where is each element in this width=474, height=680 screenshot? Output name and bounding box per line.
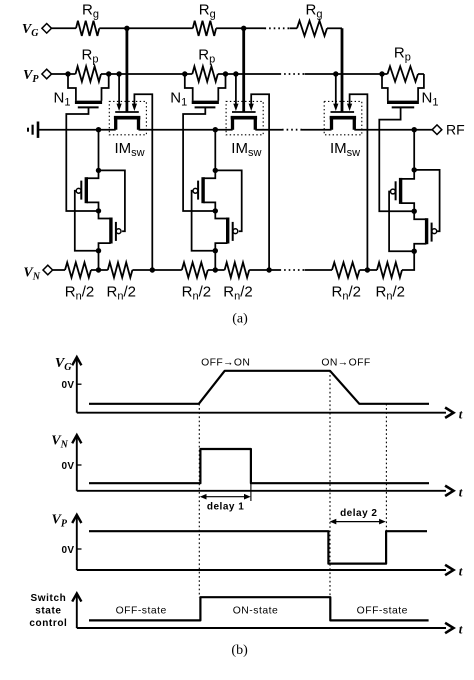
- node VN-hook2: [266, 267, 271, 272]
- gate bubble P1 (cell 1): [76, 188, 81, 193]
- guide dotted line 1: [198, 404, 200, 597]
- label OFF-ON: [201, 357, 250, 368]
- wire (bypass to P2 gate, cell 3): [414, 170, 439, 231]
- wire (VP gate feed arrow, cell 2): [233, 74, 238, 111]
- svg-text:delay 1: delay 1: [207, 502, 244, 513]
- wire (bypass to P2 gate, cell 1): [99, 170, 125, 231]
- node C (cell 2): [213, 208, 218, 213]
- wire: [269, 269, 279, 271]
- node VN-hook3: [365, 267, 370, 272]
- dashed box IMsw (cell 2): [226, 101, 263, 134]
- wire (rail): [139, 129, 233, 131]
- node B (cell 1): [96, 168, 101, 173]
- transistor P2 (cell 2): [215, 211, 232, 251]
- resistor Rn/2 (cell 2a): [182, 262, 211, 302]
- svg-text:t: t: [459, 484, 463, 499]
- gate bubble P1 (cell 3): [391, 189, 396, 194]
- wire (P1 gate to VN node, cell 1): [75, 191, 99, 251]
- label (a): [232, 312, 248, 327]
- wire: [132, 269, 152, 271]
- wire (Rg gate feed, cell 3): [341, 28, 344, 111]
- svg-text:OFF→ON: OFF→ON: [201, 357, 250, 368]
- wire: [52, 27, 77, 29]
- resistor Rn/2 (cell 2b): [215, 262, 252, 302]
- gate bubble P2 (cell 3): [432, 229, 437, 234]
- wire (rail): [255, 129, 282, 131]
- guide dotted line 3: [385, 404, 387, 531]
- wire (node D to VN row, cell 2): [214, 251, 216, 270]
- resistor Rg (cell 2): [193, 2, 216, 36]
- resistor Rn/2 (cell 3b): [367, 262, 405, 302]
- node Rg1-Rg2: [124, 26, 129, 31]
- svg-text:0V: 0V: [61, 461, 74, 472]
- transistor IMsw (cell 3): [330, 112, 360, 159]
- svg-text:Switch: Switch: [30, 593, 66, 604]
- svg-text:delay 2: delay 2: [340, 508, 377, 519]
- wire (node D to VN row, cell 1): [98, 251, 100, 270]
- transistor P1 (cell 2): [198, 170, 215, 211]
- wire: [305, 269, 333, 271]
- node VN-hook1: [150, 267, 155, 272]
- svg-text:state: state: [35, 606, 61, 617]
- label ON-OFF: [321, 357, 370, 368]
- wire (gate-to-VN hook, cell 3): [347, 94, 367, 270]
- transistor N1 (cell 3): [382, 74, 438, 108]
- resistor Rp (cell 1): [68, 47, 109, 82]
- transistor N1 (cell 2): [170, 74, 225, 108]
- node VN-cell1: [96, 267, 101, 272]
- svg-text:OFF-state: OFF-state: [357, 606, 408, 617]
- node D (cell 3): [412, 249, 417, 254]
- svg-text:t: t: [459, 622, 463, 637]
- node Rp1 right: [106, 71, 111, 76]
- svg-text:0V: 0V: [61, 380, 74, 391]
- wire (ellipsis continuation): [265, 27, 290, 29]
- wire (rail ellipsis): [282, 129, 302, 131]
- transistor P1 (cell 3): [396, 170, 415, 211]
- wire (VP gate feed arrow, cell 3): [333, 74, 338, 111]
- svg-text:t: t: [459, 406, 463, 421]
- node VP-Rp1: [65, 71, 70, 76]
- node rail-cell3: [412, 127, 417, 132]
- gate bubble P2 (cell 1): [116, 229, 121, 234]
- wire (rail to node B, cell 1): [98, 130, 100, 171]
- delay 2 annotation: [330, 508, 386, 524]
- svg-text:ON→OFF: ON→OFF: [321, 357, 370, 368]
- terminal V_N: [23, 265, 52, 282]
- transistor P1 (cell 1): [81, 170, 98, 211]
- wire: [52, 73, 69, 75]
- node rail-cell1: [96, 127, 101, 132]
- node D (cell 1): [96, 248, 101, 253]
- label OFF-state (right): [357, 606, 408, 617]
- resistor Rg (cell 3): [297, 2, 327, 36]
- wire (bypass to P2 gate, cell 2): [215, 170, 241, 231]
- waveform V_P: [89, 531, 427, 563]
- wire: [109, 73, 119, 75]
- label OFF-state (left): [116, 606, 167, 617]
- node C (cell 1): [96, 208, 101, 213]
- waveform V_N: [89, 449, 429, 483]
- wire: [99, 27, 127, 29]
- wire (rail): [39, 129, 116, 131]
- wire (rail): [302, 129, 332, 131]
- axis V_G (panel 1): [55, 356, 463, 421]
- wire: [290, 27, 298, 29]
- wire: [305, 73, 336, 75]
- wire: [327, 27, 342, 29]
- guide dotted line 2: [329, 371, 331, 597]
- wire (VP gate feed arrow, cell 1): [117, 74, 122, 111]
- dashed box IMsw (cell 3): [324, 101, 362, 134]
- wire: [236, 73, 280, 75]
- terminal V_P: [23, 68, 51, 85]
- axis V_N (panel 2): [51, 433, 463, 499]
- wire (node D to VN row, cell 3): [402, 251, 414, 270]
- wire (rail to node B, cell 2): [214, 130, 216, 171]
- node Rg2-Rg3: [241, 26, 246, 31]
- dashed box IMsw (cell 1): [109, 101, 146, 134]
- node VP-Rp2: [182, 71, 187, 76]
- wire (N1 gate, cell 3): [379, 107, 414, 211]
- node B (cell 2): [213, 168, 218, 173]
- svg-text:RF: RF: [446, 122, 465, 138]
- wire: [152, 269, 182, 271]
- node B (cell 3): [412, 167, 417, 172]
- wire: [119, 73, 185, 75]
- resistor Rn/2 (cell 1b): [99, 262, 136, 302]
- svg-text:OFF-state: OFF-state: [116, 606, 167, 617]
- node D (cell 2): [213, 248, 218, 253]
- transistor P2 (cell 1): [99, 211, 116, 251]
- svg-text:0V: 0V: [61, 545, 74, 556]
- wire (Rg gate feed, cell 2): [242, 28, 245, 111]
- svg-text:ON-state: ON-state: [233, 606, 279, 617]
- delay 1 annotation: [200, 483, 251, 512]
- wire (P1 gate to VN node, cell 2): [192, 191, 216, 251]
- svg-text:(a): (a): [232, 312, 248, 327]
- wire: [336, 73, 382, 75]
- wire: [216, 27, 244, 29]
- node VP gate feed 1: [116, 71, 121, 76]
- gate bubble P2 (cell 2): [233, 229, 238, 234]
- wire: [226, 73, 236, 75]
- wire (P1 gate to VN node, cell 3): [389, 192, 414, 252]
- waveform V_G: [89, 371, 429, 404]
- node C (cell 3): [412, 209, 417, 214]
- transistor P2 (cell 3): [414, 211, 431, 251]
- svg-text:t: t: [459, 564, 463, 579]
- svg-text:(b): (b): [231, 643, 248, 658]
- wire (ellipsis continuation): [280, 269, 305, 271]
- resistor Rn/2 (cell 3a): [332, 262, 361, 302]
- node Rp2 right: [223, 71, 228, 76]
- waveform switch state: [89, 597, 429, 620]
- wire (N1 gate, cell 2): [183, 107, 215, 211]
- resistor Rp (cell 2): [185, 47, 226, 82]
- ground: [28, 122, 38, 138]
- wire: [208, 269, 216, 271]
- wire (ellipsis continuation): [280, 73, 305, 75]
- node VN-cell2: [213, 267, 218, 272]
- wire (gate-to-VN hook, cell 2): [249, 94, 270, 270]
- wire (rail to node B, cell 3): [413, 130, 415, 170]
- terminal RF: [432, 122, 464, 138]
- wire (Rg gate feed, cell 1): [126, 28, 129, 111]
- wire: [244, 27, 265, 29]
- node VP gate feed 3: [333, 71, 338, 76]
- axis V_P (panel 3): [52, 513, 463, 579]
- wire (rail): [354, 129, 432, 131]
- transistor IMsw (cell 2): [231, 112, 262, 159]
- resistor Rg (cell 1): [76, 2, 99, 36]
- transistor N1 (cell 1): [54, 74, 109, 108]
- resistor Rn/2 (cell 1a): [65, 262, 94, 302]
- wire: [249, 269, 269, 271]
- label (b): [231, 643, 248, 658]
- node rail-cell2: [213, 127, 218, 132]
- axis switch state (panel 4): [29, 593, 462, 636]
- resistor Rp (cell 3): [382, 45, 424, 82]
- transistor IMsw (cell 1): [114, 112, 145, 159]
- wire: [53, 269, 65, 271]
- gate bubble P1 (cell 2): [193, 188, 198, 193]
- node VP gate feed 2: [233, 71, 238, 76]
- wire: [127, 27, 193, 29]
- wire: [360, 269, 368, 271]
- wire (N1 gate, cell 1): [66, 107, 98, 211]
- wire (gate-to-VN hook, cell 1): [132, 94, 153, 270]
- label ON-state: [233, 606, 279, 617]
- svg-text:control: control: [29, 618, 67, 629]
- terminal V_G: [22, 22, 52, 39]
- wire: [91, 269, 99, 271]
- node VP-Rp3: [379, 71, 384, 76]
